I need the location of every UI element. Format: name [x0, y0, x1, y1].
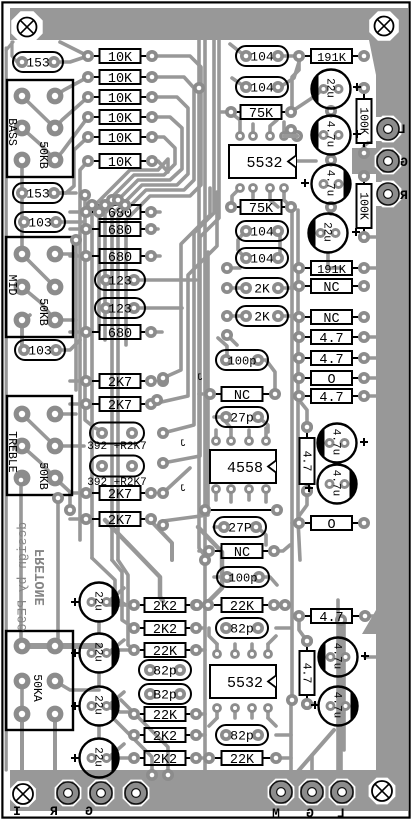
trimmer C13 2K	[236, 278, 288, 298]
wire	[329, 109, 333, 116]
resistor R2 10K	[91, 76, 100, 78]
resistor R26 100K	[363, 179, 365, 184]
capacitor C9 104	[236, 46, 288, 66]
resistor R40 4.7	[306, 644, 308, 651]
wire	[230, 44, 245, 56]
wire	[227, 335, 237, 345]
resistor R1 10K	[91, 55, 100, 57]
resistor R16 191K	[302, 55, 311, 57]
svg-text:NC: NC	[234, 389, 250, 404]
wire	[57, 137, 88, 193]
svg-text:104: 104	[250, 225, 274, 240]
wire	[247, 430, 251, 441]
wire	[257, 527, 266, 545]
capacitor C6 123	[95, 298, 145, 318]
wire	[70, 491, 86, 495]
wire	[163, 40, 214, 433]
svg-text:153: 153	[26, 187, 49, 202]
wire	[276, 733, 291, 737]
resistor R32 2K2	[137, 627, 145, 629]
pour pocket top-right	[369, 11, 399, 41]
svg-text:104: 104	[250, 81, 274, 96]
resistor R11 2K7	[89, 380, 100, 382]
wire	[218, 338, 227, 360]
wire	[251, 124, 255, 136]
resistor R22 4.7	[302, 357, 311, 359]
svg-text:4.7u: 4.7u	[330, 470, 342, 496]
capacitor C1 153	[13, 52, 63, 72]
svg-text:2K7: 2K7	[108, 376, 132, 391]
wire	[268, 636, 276, 644]
wire	[70, 254, 86, 258]
wire	[92, 558, 134, 605]
capacitor CE4 22u electrolytic	[309, 214, 348, 253]
wire	[97, 726, 101, 737]
extra pads	[157, 375, 169, 387]
wire	[55, 220, 84, 224]
pad L	[329, 779, 354, 804]
capacitor CE1 22u electrolytic	[312, 70, 351, 109]
wire	[118, 560, 134, 650]
wire	[250, 708, 254, 718]
wire	[199, 40, 205, 556]
capacitor CE8 22u electrolytic	[80, 634, 119, 673]
resistor R3 10K	[91, 96, 100, 98]
wire	[266, 644, 270, 654]
wire	[365, 655, 376, 659]
resistor R18 191K	[302, 267, 311, 269]
wire	[299, 491, 307, 523]
potentiometer VR2 MID 50KB	[6, 237, 73, 337]
svg-text:5532: 5532	[227, 675, 263, 692]
svg-text:10K: 10K	[108, 156, 133, 171]
wire	[22, 446, 55, 478]
wire	[280, 54, 299, 58]
wire	[203, 40, 207, 770]
wire	[196, 756, 205, 760]
svg-text:L: L	[398, 122, 406, 137]
wire	[121, 700, 168, 775]
svg-text:22u: 22u	[92, 642, 104, 662]
wire	[151, 521, 172, 560]
pour pocket bottom-right	[369, 778, 396, 805]
wire	[364, 394, 378, 398]
wire	[20, 320, 24, 350]
copper pour top-right wedge	[369, 40, 408, 100]
wire	[214, 415, 227, 419]
svg-text:680: 680	[108, 224, 132, 239]
wire	[55, 412, 76, 416]
svg-text:TREBLE: TREBLE	[5, 431, 18, 473]
wire	[229, 489, 233, 502]
svg-text:design by PE96: design by PE96	[15, 522, 30, 631]
pad I	[55, 780, 80, 805]
svg-text:NC: NC	[323, 281, 339, 296]
pour pocket pad L	[376, 117, 401, 142]
wire	[266, 708, 270, 718]
wire	[357, 86, 364, 90]
wire	[55, 77, 88, 96]
resistor R39 4.7	[302, 615, 311, 617]
svg-text:22K: 22K	[230, 600, 255, 615]
wire	[364, 614, 378, 618]
svg-text:FRETONE: FRETONE	[34, 549, 49, 606]
svg-text:2K2: 2K2	[153, 623, 177, 638]
wire	[106, 706, 134, 712]
svg-text:R: R	[400, 188, 408, 203]
trimmer C14 2K	[236, 306, 288, 326]
wire	[20, 160, 24, 193]
svg-text:2K: 2K	[254, 282, 270, 297]
svg-text:50KB: 50KB	[36, 298, 49, 326]
svg-text:22K: 22K	[153, 709, 178, 724]
wire	[12, 42, 22, 62]
wire	[280, 62, 299, 87]
svg-text:O: O	[327, 518, 335, 533]
wire	[163, 252, 208, 521]
wire	[297, 159, 316, 163]
pour pocket top-left	[11, 11, 42, 42]
svg-text:22u: 22u	[92, 747, 104, 767]
resistor R36 2K2	[137, 757, 145, 759]
wire	[282, 122, 286, 136]
wire	[22, 643, 99, 649]
wire	[85, 195, 106, 433]
resistor R13 2K7	[89, 492, 100, 494]
wire	[209, 628, 217, 644]
resistor R8 680	[89, 228, 100, 230]
svg-text:4.7: 4.7	[319, 611, 343, 626]
wire	[55, 478, 70, 510]
svg-text:82p: 82p	[153, 664, 176, 679]
capacitor C11 104	[236, 221, 288, 241]
junction pads	[199, 554, 211, 566]
wire	[22, 128, 55, 160]
svg-text:10K: 10K	[108, 72, 133, 87]
capacitor C21 82p	[216, 618, 268, 638]
wire	[22, 96, 55, 128]
svg-text:22K: 22K	[230, 753, 255, 768]
potentiometer VR3 TREBLE 50KB	[7, 396, 72, 495]
resistor R25 100K	[363, 91, 365, 99]
svg-text:4.7u: 4.7u	[324, 121, 336, 147]
wire	[55, 340, 80, 350]
wire	[276, 603, 291, 607]
wire	[20, 714, 24, 790]
wire	[250, 644, 254, 654]
wire	[199, 549, 209, 553]
wire	[270, 120, 277, 136]
wire	[214, 430, 218, 441]
svg-text:82p: 82p	[230, 622, 253, 637]
wire	[5, 48, 8, 770]
capacitor C17 27P	[214, 517, 266, 537]
wire	[163, 468, 190, 493]
wire	[215, 644, 219, 654]
wire	[105, 520, 163, 601]
wire	[209, 718, 217, 726]
wire	[70, 517, 86, 521]
resistor R6 10K	[91, 160, 100, 162]
pad G	[375, 148, 400, 173]
svg-text:50KA: 50KA	[30, 674, 43, 702]
pour pocket bottom-left	[10, 781, 36, 807]
wire	[232, 188, 240, 207]
resistor R14 2K7	[89, 518, 100, 520]
capacitor C10 104	[236, 77, 288, 97]
wire	[214, 575, 226, 579]
wire	[258, 417, 268, 432]
wire	[196, 626, 205, 630]
svg-text:2K7: 2K7	[108, 399, 132, 414]
wire	[278, 231, 282, 258]
wire	[274, 545, 290, 551]
mounting hole H3	[13, 784, 33, 804]
wire	[108, 588, 124, 602]
wire	[157, 192, 217, 403]
wire	[214, 489, 218, 500]
wire	[364, 153, 376, 161]
capacitor CE10 22u electrolytic	[80, 739, 119, 778]
svg-text:100K: 100K	[357, 107, 370, 135]
wire	[126, 56, 201, 345]
wire	[247, 489, 251, 500]
wire	[20, 193, 24, 222]
svg-text:103: 103	[28, 344, 51, 359]
wire	[233, 708, 237, 718]
resistor R23 O	[302, 377, 311, 379]
svg-text:4.7u: 4.7u	[331, 643, 343, 669]
wire	[99, 137, 175, 330]
wire	[70, 330, 86, 334]
pad R	[88, 780, 113, 805]
svg-text:104: 104	[250, 252, 274, 267]
svg-text:J: J	[197, 373, 203, 384]
svg-text:2K7: 2K7	[108, 488, 132, 503]
mounting hole H2	[375, 17, 394, 36]
wire	[163, 188, 210, 378]
wire	[55, 444, 84, 448]
wire	[196, 648, 205, 652]
wire	[106, 603, 134, 607]
op-amp U3 5532	[210, 665, 276, 698]
extra pads	[202, 599, 214, 611]
svg-text:4.7u: 4.7u	[330, 429, 342, 455]
capacitor C4 103	[15, 340, 65, 360]
capacitor C12 104	[236, 248, 288, 268]
capacitor CE2 4.7u electrolytic	[312, 116, 351, 155]
resistor R28 4.7	[306, 430, 308, 438]
resistor R30 NC	[212, 550, 222, 552]
svg-text:J: J	[180, 439, 186, 450]
wire	[258, 360, 275, 388]
wire	[338, 600, 342, 788]
wire	[92, 159, 168, 558]
wire	[279, 286, 299, 290]
wire	[112, 97, 188, 560]
copper pour bottom band	[10, 770, 408, 811]
wire	[364, 235, 376, 239]
wire	[199, 392, 210, 396]
capacitor C15 100p	[216, 350, 268, 370]
svg-text:NC: NC	[323, 312, 339, 327]
svg-text:2K2: 2K2	[153, 730, 177, 745]
capacitor C8	[90, 456, 144, 477]
capacitor C20 B2p	[139, 684, 191, 704]
svg-text:191K: 191K	[317, 263, 347, 277]
wire	[259, 577, 277, 585]
resistor R37 22K	[200, 604, 222, 606]
svg-text:22K: 22K	[153, 645, 178, 660]
svg-text:100p: 100p	[229, 572, 258, 586]
wire	[22, 287, 55, 320]
wire	[298, 210, 300, 560]
svg-text:4.7u: 4.7u	[331, 692, 343, 718]
wire	[328, 253, 340, 268]
capacitor CE7 22u electrolytic	[80, 583, 119, 622]
svg-text:4.7u: 4.7u	[324, 170, 336, 196]
wire	[238, 231, 245, 258]
wire	[276, 756, 291, 760]
wire	[55, 318, 76, 322]
wire	[299, 400, 307, 427]
wire	[251, 188, 255, 198]
capacitor CE6 4.7u electrolytic	[318, 465, 357, 504]
svg-text:392 +R2K7: 392 +R2K7	[87, 441, 146, 453]
wire	[264, 489, 268, 502]
wire	[284, 188, 291, 207]
wire	[196, 712, 205, 716]
wire	[290, 210, 294, 700]
wire	[134, 278, 196, 282]
svg-text:4558: 4558	[227, 460, 263, 477]
wire	[292, 315, 299, 319]
pour pocket pad R	[376, 182, 401, 207]
svg-text:4.7: 4.7	[319, 353, 343, 368]
wire	[279, 314, 299, 318]
svg-text:4.7: 4.7	[319, 391, 343, 406]
wire	[70, 379, 86, 383]
wire	[276, 626, 291, 630]
resistor R20 NC	[302, 316, 311, 318]
jumper W1	[205, 509, 277, 511]
resistor R19 NC	[302, 285, 311, 287]
wire	[292, 58, 299, 110]
resistor R31 2K2	[137, 604, 145, 606]
resistor R9 680	[89, 255, 100, 257]
svg-text:MID: MID	[5, 275, 18, 296]
wire	[214, 525, 224, 529]
wire	[299, 622, 307, 641]
wire	[113, 718, 152, 775]
wire	[364, 129, 388, 146]
svg-text:10K: 10K	[108, 112, 133, 127]
op-amp U1 5532	[229, 145, 296, 178]
wire	[163, 40, 219, 463]
wire	[370, 194, 388, 204]
wire	[292, 521, 299, 525]
svg-text:75K: 75K	[249, 202, 274, 217]
wire	[364, 356, 378, 360]
svg-text:22u: 22u	[92, 695, 104, 715]
capacitor C3 103	[15, 212, 65, 232]
capacitor C18 100p	[217, 567, 269, 587]
resistor R34 22K	[137, 713, 145, 715]
wire	[6, 42, 13, 50]
wire	[227, 286, 246, 290]
wire	[55, 252, 76, 256]
capacitor CE9 22u electrolytic	[80, 687, 119, 726]
wire	[270, 188, 278, 207]
wire	[97, 673, 101, 685]
wire	[106, 756, 134, 760]
capacitor CE11 4.7u electrolytic	[319, 638, 358, 677]
wire	[57, 56, 88, 62]
resistor R35 2K2	[137, 734, 145, 736]
wire	[339, 620, 343, 785]
svg-text:50KB: 50KB	[36, 462, 49, 490]
wire	[293, 730, 334, 777]
wire	[19, 480, 23, 646]
capacitor CE3 4.7u electrolytic	[312, 165, 351, 204]
svg-text:5532: 5532	[246, 155, 282, 172]
capacitor C2 153	[13, 183, 63, 203]
wire	[56, 498, 60, 640]
svg-text:J: J	[180, 484, 186, 495]
wire	[329, 155, 333, 165]
svg-text:2K7: 2K7	[108, 514, 132, 529]
wire	[364, 266, 378, 270]
wire	[151, 254, 160, 258]
svg-text:123: 123	[108, 274, 131, 289]
wire	[105, 117, 182, 340]
resistor R4 10K	[91, 116, 100, 118]
wire	[227, 266, 240, 270]
wire	[80, 161, 88, 540]
pad link	[291, 130, 303, 142]
wire	[215, 708, 219, 718]
wire	[196, 603, 205, 607]
wire	[97, 775, 101, 790]
capacitor CE12 4.7u electrolytic	[319, 687, 358, 726]
wire	[151, 330, 162, 334]
svg-text:123: 123	[108, 302, 131, 317]
wire	[20, 681, 24, 714]
wire	[70, 227, 86, 231]
svg-text:103: 103	[28, 216, 51, 231]
svg-text:27P: 27P	[228, 521, 252, 536]
wire	[55, 97, 88, 128]
pad M	[268, 779, 293, 804]
wire	[268, 718, 276, 726]
wire	[284, 700, 291, 786]
wire	[70, 402, 86, 406]
resistor R27 NC	[213, 393, 222, 395]
resistor R15 75K	[234, 111, 241, 113]
wire	[231, 113, 240, 136]
wire	[364, 335, 378, 339]
wire	[196, 733, 205, 737]
copper pour right notch	[362, 610, 376, 634]
wire	[22, 414, 55, 446]
wire	[292, 284, 299, 288]
wire	[53, 714, 57, 790]
wire	[112, 560, 134, 628]
svg-text:2K2: 2K2	[153, 753, 177, 768]
resistor R21 4.7	[302, 336, 311, 338]
svg-text:680: 680	[108, 327, 132, 342]
svg-text:22u: 22u	[324, 78, 336, 98]
